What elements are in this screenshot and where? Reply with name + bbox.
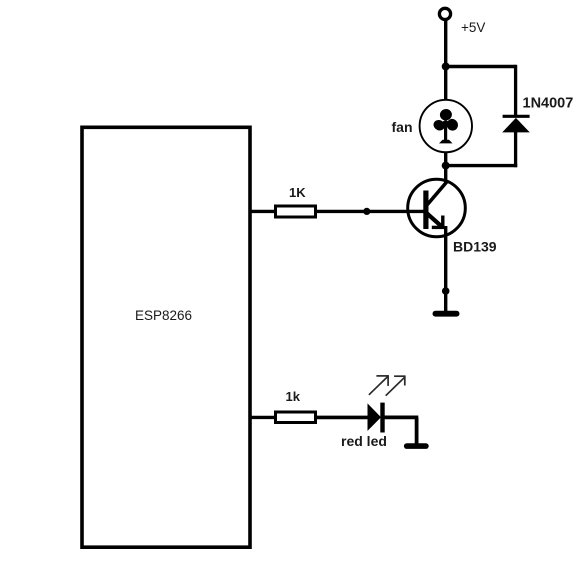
wire diode branch vertical lower [514,131,517,167]
svg-text:1K: 1K [289,185,306,200]
wire +5V down to fan [444,21,447,101]
wire R2 to LED anode [317,416,369,420]
resistor R1 body [276,206,316,217]
transistor Q1 collector stroke [427,181,448,205]
wire led ground vertical [415,417,419,444]
wire top horizontal to diode branch [446,65,516,68]
wire emitter to ground [444,226,447,313]
svg-text:1N4007: 1N4007 [523,96,574,112]
transistor Q1 emitter arrowhead horizontal [432,226,445,229]
wire bottom horizontal back to fan net [446,164,518,167]
IC U1 ESP8266 box [82,127,250,547]
fan icon stem [444,123,447,140]
wire fan bottom to transistor collector [444,153,447,184]
ground bar led branch [404,443,429,449]
+5V terminal circle [439,8,450,19]
transistor Q1 circle [408,179,466,237]
LED D2 triangle [368,403,382,431]
resistor R2 body [276,412,316,423]
svg-text:red led: red led [341,433,387,449]
junction node fan bottom [442,162,450,170]
svg-text:+5V: +5V [461,20,485,35]
fan M1 circle [420,100,472,152]
diode D1 triangle [502,118,530,132]
svg-text:ESP8266: ESP8266 [135,308,192,323]
wire base: ESP8266 to resistor R1 [250,210,276,213]
ground bar below transistor [433,311,460,317]
LED light arrow 2 [386,376,406,396]
svg-text:fan: fan [392,119,413,135]
wire led branch: ESP8266 to resistor R2 [250,416,276,419]
junction node top [442,63,450,71]
fan icon blades [432,108,460,133]
diode D1 1N4007 cathode bar [503,115,530,118]
svg-text:BD139: BD139 [453,239,497,255]
junction node on base wire [363,208,370,215]
wire diode branch vertical upper [514,65,517,116]
LED D2 cathode bar [380,403,384,433]
transistor Q1 emitter arrowhead vertical [441,216,444,230]
fan icon base [439,140,453,144]
junction node emitter [442,287,450,295]
transistor Q1 emitter stroke [427,213,443,227]
wire R1 to transistor base [317,210,424,213]
transistor Q1 base bar [423,191,428,230]
wire LED cathode to ground corner [385,415,419,419]
svg-text:1k: 1k [286,389,301,404]
LED light arrow 1 [369,375,389,395]
